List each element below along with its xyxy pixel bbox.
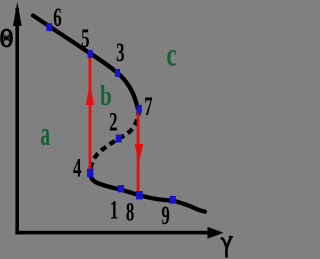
region label a xyxy=(40,114,50,152)
x-axis label gamma xyxy=(222,237,233,257)
curve upper solid branch xyxy=(33,16,138,109)
svg-text:c: c xyxy=(166,38,176,74)
svg-text:a: a xyxy=(40,114,50,152)
label 6 xyxy=(53,2,61,32)
svg-text:8: 8 xyxy=(126,197,134,227)
label 1 xyxy=(110,195,118,225)
marker point 3 xyxy=(115,69,120,77)
svg-text:7: 7 xyxy=(144,91,152,121)
label 9 xyxy=(161,200,169,230)
marker point 2 xyxy=(116,135,122,143)
red up arrow line (4 to 5) xyxy=(89,58,92,170)
red up arrowhead xyxy=(86,82,94,105)
label 2 xyxy=(109,107,117,137)
svg-text:5: 5 xyxy=(81,23,89,53)
svg-text:Θ: Θ xyxy=(0,23,13,52)
y-axis arrowhead xyxy=(13,2,22,27)
curve middle dashed branch xyxy=(90,112,138,172)
marker point 8 xyxy=(136,191,143,199)
label 3 xyxy=(116,37,124,67)
svg-text:1: 1 xyxy=(110,195,118,225)
red down arrow line (7 to 8) xyxy=(137,111,140,191)
marker point 1 xyxy=(118,185,124,192)
label 8 xyxy=(126,197,134,227)
x-axis arrowhead xyxy=(208,227,224,239)
red down arrowhead xyxy=(135,144,144,163)
x-axis line xyxy=(15,231,211,235)
label 7 xyxy=(144,91,152,121)
y-axis line xyxy=(15,8,19,235)
label 4 xyxy=(73,153,81,183)
svg-text:3: 3 xyxy=(116,37,124,67)
region label c xyxy=(166,38,176,74)
marker point 7 xyxy=(137,105,142,113)
curve lower solid branch xyxy=(90,174,205,212)
svg-text:4: 4 xyxy=(73,153,81,183)
marker point 6 xyxy=(46,23,52,31)
svg-text:b: b xyxy=(100,81,112,112)
svg-text:6: 6 xyxy=(53,2,61,32)
marker point 5 xyxy=(88,50,93,58)
marker point 4 xyxy=(87,169,93,178)
y-axis label theta xyxy=(0,23,13,52)
svg-text:9: 9 xyxy=(161,200,169,230)
marker point 9 xyxy=(170,196,176,204)
region label b xyxy=(100,81,112,112)
label 5 xyxy=(81,23,89,53)
